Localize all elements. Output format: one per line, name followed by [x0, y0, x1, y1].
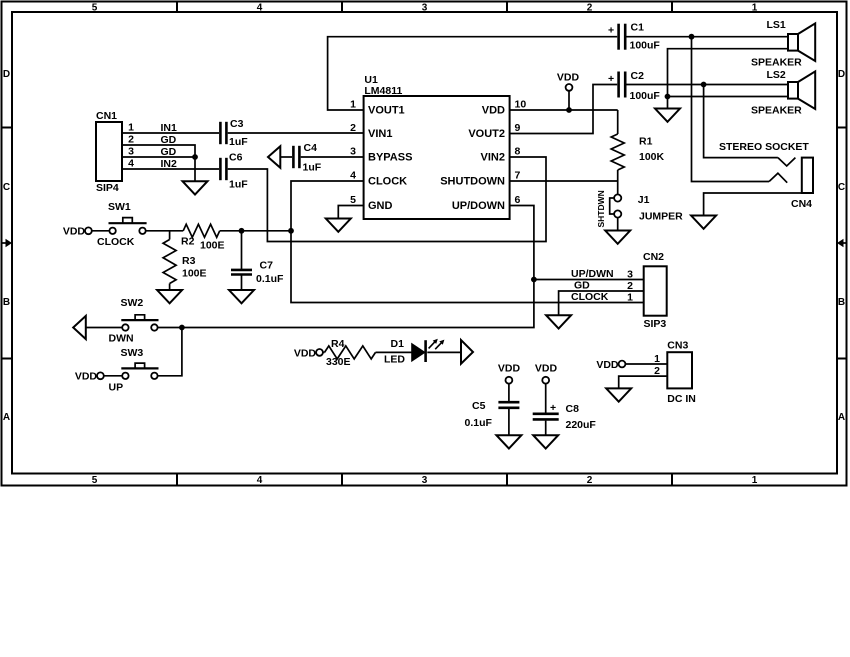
svg-text:LM4811: LM4811 — [364, 85, 402, 97]
wire SW3 to junction — [158, 328, 182, 376]
svg-text:D1: D1 — [391, 338, 405, 350]
svg-text:BYPASS: BYPASS — [368, 152, 412, 164]
wire VIN2 C6 to U1 pin8 — [228, 157, 546, 242]
svg-text:SW3: SW3 — [121, 347, 144, 359]
svg-text:3: 3 — [422, 475, 428, 486]
wire LS2 minus — [668, 96, 789, 98]
junction CLOCK — [288, 228, 294, 234]
svg-text:VDD: VDD — [557, 72, 580, 84]
svg-text:2: 2 — [654, 365, 660, 377]
svg-text:2: 2 — [587, 475, 593, 486]
wire VIN1 C3 to U1 pin2 — [228, 132, 364, 134]
svg-text:100uF: 100uF — [630, 40, 661, 52]
capacitor C5 0.1uF — [465, 400, 520, 435]
svg-text:2: 2 — [587, 3, 593, 14]
svg-text:C2: C2 — [631, 70, 645, 82]
svg-text:VIN2: VIN2 — [481, 152, 505, 164]
port arrow LED out — [461, 340, 473, 364]
svg-text:5: 5 — [350, 194, 356, 206]
svg-text:GND: GND — [368, 200, 393, 212]
svg-text:R3: R3 — [182, 255, 196, 267]
svg-text:1: 1 — [752, 475, 758, 486]
svg-text:VDD: VDD — [498, 363, 521, 375]
ground stereo socket — [691, 216, 716, 229]
svg-text:3: 3 — [350, 146, 356, 158]
svg-text:C7: C7 — [260, 260, 274, 272]
capacitor C3 — [220, 118, 248, 148]
svg-text:330E: 330E — [326, 356, 351, 368]
svg-text:5: 5 — [92, 475, 98, 486]
wire CLOCK R2 to junctions — [220, 230, 291, 232]
ground C7 — [229, 290, 254, 303]
wire VOUT1 pin1 to C1 — [328, 37, 618, 110]
wire LS1 plus to jack tip — [692, 37, 770, 182]
svg-text:100uF: 100uF — [630, 90, 661, 102]
resistor R2 100E — [181, 224, 225, 251]
wire CN4 sleeve to ground — [704, 193, 802, 215]
svg-text:JUMPER: JUMPER — [639, 211, 683, 223]
svg-text:A: A — [3, 412, 10, 423]
junction CN1 GD — [192, 154, 198, 160]
svg-text:VDD: VDD — [63, 226, 86, 238]
svg-text:1: 1 — [752, 3, 758, 14]
wire BYPASS C4 to U1 pin3 — [301, 156, 364, 158]
wire LS2 plus to jack ring — [704, 85, 778, 158]
junction C7 — [239, 228, 245, 234]
port arrow BYPASS — [268, 146, 280, 168]
wire CN1 pin4 to C6 — [122, 168, 219, 170]
svg-text:CLOCK: CLOCK — [97, 236, 135, 248]
svg-text:SPEAKER: SPEAKER — [751, 105, 802, 117]
capacitor C6 — [220, 152, 248, 191]
wire SW2 to junction — [158, 327, 182, 329]
svg-text:VOUT2: VOUT2 — [468, 128, 505, 140]
wire UP/DOWN pin6 to switches — [182, 206, 534, 328]
svg-text:VDD: VDD — [596, 359, 619, 371]
svg-text:CN4: CN4 — [791, 198, 812, 210]
wire CLOCK to CN2 pin1 — [291, 231, 644, 303]
svg-text:R4: R4 — [331, 338, 345, 350]
svg-text:5: 5 — [92, 3, 98, 14]
wire VOUT2 pin9 to C2 — [510, 85, 618, 134]
svg-text:SW1: SW1 — [108, 201, 131, 213]
capacitor C7 0.1uF — [231, 231, 284, 290]
connector CN3 DC IN — [654, 340, 696, 406]
svg-text:8: 8 — [515, 146, 521, 158]
power VDD at C8 — [535, 363, 558, 413]
svg-text:CLOCK: CLOCK — [368, 176, 407, 188]
ground CN3 — [606, 388, 631, 401]
wire arrow to C4 — [280, 156, 292, 158]
LED D1 — [384, 338, 444, 366]
ground R3 — [157, 290, 182, 303]
svg-text:7: 7 — [515, 170, 521, 182]
power VDD at C5 — [498, 363, 521, 402]
power VDD at CN3 — [596, 359, 625, 371]
svg-text:SIP4: SIP4 — [96, 182, 119, 194]
connector CN1 SIP4 — [96, 110, 134, 194]
svg-text:J1: J1 — [638, 194, 650, 206]
wire C2 to LS2 plus — [627, 84, 789, 86]
resistor R3 100E — [163, 231, 206, 290]
ground CN2 — [546, 315, 571, 328]
svg-text:100K: 100K — [639, 151, 665, 163]
junction LS2 minus — [665, 94, 671, 100]
svg-text:SIP3: SIP3 — [644, 318, 667, 330]
svg-text:1: 1 — [350, 99, 356, 111]
wire CLOCK U1 pin4 — [291, 181, 364, 231]
svg-text:3: 3 — [422, 3, 428, 14]
switch SW3 UP — [109, 347, 159, 394]
svg-text:C1: C1 — [631, 22, 645, 34]
svg-text:R2: R2 — [181, 236, 195, 248]
capacitor C4 — [293, 142, 321, 174]
svg-text:SHTDWN: SHTDWN — [596, 190, 606, 227]
svg-text:100E: 100E — [182, 268, 207, 280]
svg-text:9: 9 — [515, 122, 521, 134]
svg-text:3: 3 — [128, 146, 134, 158]
junction VDD pin10 — [566, 107, 572, 113]
switch SW1 CLOCK — [97, 201, 147, 248]
power VDD at U1 — [557, 72, 580, 111]
svg-text:VIN1: VIN1 — [368, 128, 392, 140]
ground U1 — [326, 219, 351, 232]
svg-text:A: A — [838, 412, 845, 423]
wire DWN arrow to SW2 — [86, 327, 123, 329]
svg-text:UP/DOWN: UP/DOWN — [452, 200, 505, 212]
svg-text:6: 6 — [515, 194, 521, 206]
svg-text:B: B — [3, 297, 10, 308]
capacitor C8 220uF — [533, 402, 597, 435]
svg-text:4: 4 — [350, 170, 356, 182]
switch SW2 DWN — [109, 297, 159, 345]
svg-text:LS2: LS2 — [767, 69, 786, 81]
svg-text:DWN: DWN — [109, 333, 134, 345]
svg-text:D: D — [3, 69, 10, 80]
svg-text:+: + — [608, 73, 614, 85]
wire SHUTDOWN pin7 to R1 and J1 — [510, 181, 618, 195]
wire VDD U1 pin10 — [510, 109, 618, 111]
junction UP/DWN at switches — [179, 325, 185, 331]
svg-text:UP: UP — [109, 382, 124, 394]
svg-text:VDD: VDD — [482, 105, 505, 117]
stereo socket contacts — [719, 141, 809, 183]
svg-text:C: C — [3, 182, 10, 193]
speaker LS2 — [751, 69, 815, 117]
power VDD at SW3 — [75, 371, 122, 383]
svg-text:LED: LED — [384, 354, 405, 366]
svg-text:10: 10 — [515, 99, 527, 111]
svg-text:VDD: VDD — [294, 348, 317, 360]
junction UP/DWN at CN2 — [531, 277, 537, 283]
svg-text:CN3: CN3 — [667, 340, 688, 352]
svg-text:C: C — [838, 182, 845, 193]
svg-text:2: 2 — [128, 134, 134, 146]
svg-text:CN2: CN2 — [643, 251, 664, 263]
wire CN3 pin2 to ground — [619, 376, 668, 388]
wire LS1 minus — [668, 49, 789, 108]
sheet center marker left — [2, 239, 13, 247]
power VDD at SW1 — [63, 226, 110, 238]
wire CN1 GD pins 2,3 to ground — [122, 145, 195, 181]
svg-text:B: B — [838, 297, 845, 308]
svg-text:CLOCK: CLOCK — [571, 291, 609, 303]
svg-text:CN1: CN1 — [96, 110, 117, 122]
svg-text:C5: C5 — [472, 400, 486, 412]
ground C5 — [496, 435, 521, 448]
svg-text:1uF: 1uF — [303, 162, 322, 174]
svg-text:C3: C3 — [230, 118, 244, 130]
svg-text:LS1: LS1 — [767, 19, 786, 31]
wire CN1 pin1 to C3 — [122, 132, 219, 134]
svg-text:0.1uF: 0.1uF — [465, 417, 493, 429]
svg-text:C6: C6 — [229, 152, 243, 164]
svg-text:VDD: VDD — [75, 371, 98, 383]
svg-text:100E: 100E — [200, 240, 225, 252]
svg-text:UP/DWN: UP/DWN — [571, 268, 614, 280]
capacitor C2 — [608, 70, 660, 102]
svg-text:0.1uF: 0.1uF — [256, 273, 284, 285]
wire CN2 pin2 GD to ground — [559, 291, 644, 315]
wire CN2 pin3 — [534, 279, 644, 281]
svg-text:SW2: SW2 — [121, 297, 144, 309]
svg-text:VOUT1: VOUT1 — [368, 105, 405, 117]
svg-text:D: D — [838, 69, 845, 80]
capacitor C1 — [608, 22, 660, 52]
svg-text:GD: GD — [574, 280, 590, 292]
ground speakers — [655, 109, 680, 122]
connector CN4 — [791, 158, 813, 210]
svg-text:R1: R1 — [639, 136, 653, 148]
ground C8 — [533, 435, 558, 448]
svg-text:4: 4 — [257, 3, 263, 14]
svg-text:1uF: 1uF — [229, 179, 248, 191]
svg-text:220uF: 220uF — [566, 419, 597, 431]
ground CN1 — [183, 181, 208, 194]
wire J1 to ground — [617, 218, 619, 231]
port arrow DWN — [73, 316, 86, 339]
jumper J1 — [610, 194, 683, 223]
svg-text:SPEAKER: SPEAKER — [751, 57, 802, 69]
speaker LS1 — [751, 19, 815, 69]
junction LS1 plus — [689, 34, 695, 40]
svg-text:DC IN: DC IN — [667, 393, 696, 405]
resistor R1 100K — [611, 110, 664, 181]
svg-text:STEREO SOCKET: STEREO SOCKET — [719, 141, 809, 153]
wire CN3 pin1 — [625, 363, 667, 365]
svg-text:C4: C4 — [304, 142, 318, 154]
power VDD at R4 — [294, 348, 325, 360]
svg-text:VDD: VDD — [535, 363, 558, 375]
IC U1 LM4811 — [350, 74, 526, 219]
wire CLOCK SW1 to R2 — [146, 230, 184, 232]
wire R4 to D1 — [376, 351, 412, 353]
svg-text:4: 4 — [128, 158, 134, 170]
junction LS2 plus — [701, 82, 707, 88]
connector CN2 SIP3 — [627, 251, 667, 330]
svg-text:SHUTDOWN: SHUTDOWN — [440, 176, 505, 188]
wire GND pin5 to ground — [338, 206, 363, 219]
svg-text:4: 4 — [257, 475, 263, 486]
ground J1 — [605, 231, 630, 244]
svg-text:2: 2 — [350, 122, 356, 134]
svg-text:1uF: 1uF — [229, 136, 248, 148]
wire C1 to LS1 plus — [627, 36, 789, 38]
svg-text:+: + — [550, 402, 556, 414]
resistor R4 330E — [325, 338, 376, 368]
wire D1 to port arrow — [427, 351, 460, 353]
svg-text:C8: C8 — [566, 403, 580, 415]
svg-text:1: 1 — [654, 353, 660, 365]
svg-text:+: + — [608, 25, 614, 37]
svg-text:1: 1 — [128, 122, 134, 134]
sheet center marker right — [837, 239, 846, 247]
